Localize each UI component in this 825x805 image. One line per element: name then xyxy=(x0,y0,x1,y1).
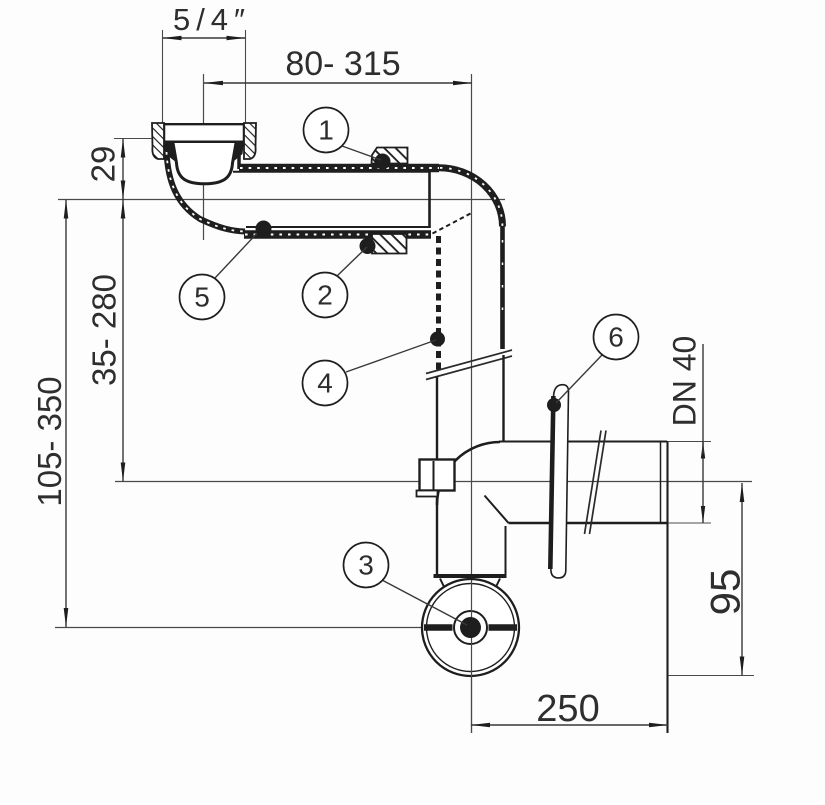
union nut G5/4 left hatched wall xyxy=(152,123,164,159)
outlet spigot end edge / 250 extension xyxy=(666,441,668,733)
extension line 95 bottom xyxy=(668,675,754,677)
wire step from nut to pipe top wall xyxy=(237,154,241,169)
wire extension line 5/4 left xyxy=(162,30,164,123)
immersion cup (dome) xyxy=(173,143,236,184)
outlet spigot end inner line xyxy=(660,442,662,523)
wire extension line 5/4 right xyxy=(245,30,247,123)
svg-text:95: 95 xyxy=(702,569,749,616)
extension line DN40 bottom xyxy=(668,522,711,524)
svg-text:1: 1 xyxy=(318,115,334,146)
compression nut 1 (hatched) xyxy=(372,148,408,164)
balloon 6 xyxy=(594,315,639,360)
leader line item 6 xyxy=(556,355,602,403)
dimension 250 xyxy=(471,688,668,730)
elbow inner corner line xyxy=(485,496,509,524)
outlet pipe top wall xyxy=(499,441,667,443)
inner tube bottom wall xyxy=(246,226,430,228)
cleanout cover inner circle xyxy=(454,611,487,644)
gasket under nut flange xyxy=(164,141,244,147)
dimension 35-280 xyxy=(86,200,126,482)
svg-text:5: 5 xyxy=(194,282,210,313)
balloon 4 xyxy=(303,361,348,406)
balloon 2 xyxy=(303,273,348,318)
stand pipe left wall lower xyxy=(436,377,438,577)
stand pipe left wall upper (dashed) xyxy=(436,236,441,371)
svg-text:250: 250 xyxy=(536,688,599,730)
dimension 105-350 xyxy=(31,200,68,628)
trap outer shell curve (flex band) xyxy=(167,152,246,232)
compression nut 2 (hatched) xyxy=(372,234,407,254)
union nut G5/4 right hatched wall xyxy=(244,123,256,159)
dimension 80-315 xyxy=(204,45,472,85)
pipe bottom wall band (dashed) xyxy=(244,230,431,239)
tee body bottom xyxy=(434,574,507,578)
dimension 5/4 inch xyxy=(163,2,252,40)
svg-text:4: 4 xyxy=(317,368,333,399)
elbow inner silhouette xyxy=(433,214,471,234)
cleanout neck right xyxy=(491,579,500,598)
leader line item 5 xyxy=(215,229,261,278)
break lines on outlet pipe xyxy=(585,431,607,535)
leader line item 4 xyxy=(346,340,436,372)
dimension 29 xyxy=(85,139,126,200)
svg-text:105- 350: 105- 350 xyxy=(31,376,68,506)
node vertical centerline of stand pipe (x=471) xyxy=(471,74,473,733)
dimension 95 xyxy=(702,483,749,676)
extension line DN40 top xyxy=(668,441,711,443)
pipe top wall band (dashed) xyxy=(239,164,439,173)
leader line item 2 xyxy=(337,247,367,276)
balloon 3 xyxy=(344,543,389,588)
leader dot item 4 xyxy=(430,332,445,347)
tee body right edge xyxy=(505,526,507,574)
cleanout neck left xyxy=(440,579,449,598)
svg-text:2: 2 xyxy=(317,280,333,311)
svg-text:DN 40: DN 40 xyxy=(667,336,703,427)
leader line item 3 xyxy=(382,580,467,625)
leader dot item 2 xyxy=(360,238,376,254)
cleanout cover outer circles xyxy=(422,579,519,676)
elbow outer curve (dashed band) xyxy=(439,168,503,227)
svg-text:35- 280: 35- 280 xyxy=(86,274,123,386)
union nut G5/4 flange body xyxy=(152,123,256,143)
outlet pipe bottom wall xyxy=(509,522,668,525)
svg-text:29: 29 xyxy=(85,146,122,183)
extension line for 29 top xyxy=(114,138,152,140)
node horizontal reference line y=627 (cleanout axis) xyxy=(55,627,424,629)
leader dot item 6 xyxy=(547,398,561,412)
leader dot item 5 xyxy=(256,221,272,237)
washer wedge left xyxy=(163,145,178,161)
svg-text:5/4″: 5/4″ xyxy=(173,2,251,37)
leader dot item 3 (cover center) xyxy=(460,617,481,638)
dimension DN 40 xyxy=(667,336,706,523)
node horizontal reference line y=481 (outlet centerline) xyxy=(115,481,752,483)
elbow heel arc xyxy=(437,442,500,505)
node vertical centerline of inlet nut (x=203) xyxy=(203,74,205,240)
node horizontal reference line y=199 (trap centerline) xyxy=(58,199,505,201)
stand pipe right wall upper xyxy=(500,226,505,349)
inner tube top wall xyxy=(233,171,430,173)
balloon 1 xyxy=(304,108,349,153)
wall flange plate (tilted capsule) xyxy=(550,385,568,578)
svg-text:80- 315: 80- 315 xyxy=(285,45,400,83)
inner tube end xyxy=(428,171,431,228)
leader line item 1 xyxy=(342,146,381,160)
balloon 5 xyxy=(180,275,225,320)
stand pipe right wall lower xyxy=(502,355,504,441)
svg-text:3: 3 xyxy=(358,550,374,581)
mounting bracket xyxy=(417,460,455,497)
cleanout cover grip bar xyxy=(424,624,517,631)
svg-text:6: 6 xyxy=(608,322,624,353)
break lines on stand pipe xyxy=(426,350,512,380)
washer wedge right xyxy=(230,145,244,161)
leader dot item 1 xyxy=(375,154,391,170)
vertical centerline through cover xyxy=(471,580,473,733)
